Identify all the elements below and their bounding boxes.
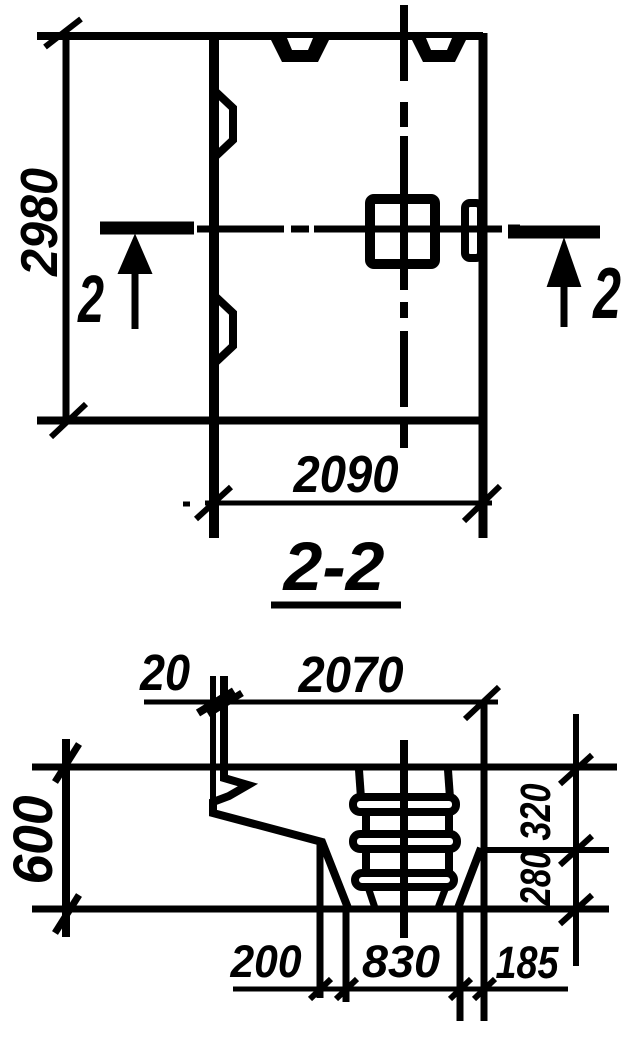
- horizontal axis center line (dash-dot): [181, 226, 520, 233]
- section axis center line: [400, 740, 408, 938]
- shear key wall between A-B right: [445, 813, 453, 834]
- svg-text:185: 185: [496, 937, 560, 988]
- opening square: [370, 199, 435, 264]
- thin wall right line with break zigzag: [213, 676, 348, 908]
- top edge notch 2: [411, 38, 467, 62]
- ledge line y=850 right side: [487, 847, 609, 853]
- section mark bar left: [100, 222, 194, 235]
- shear key wall between A-B left: [362, 813, 370, 834]
- shear key bottom wall left: [368, 887, 375, 908]
- panel bottom edge with left extension: [37, 417, 483, 425]
- extension line x=460: [457, 906, 464, 1021]
- svg-text:2: 2: [77, 262, 104, 337]
- section bottom surface line: [32, 906, 609, 913]
- tick at x460: [450, 979, 471, 999]
- svg-text:320: 320: [512, 783, 560, 840]
- dimension line 2090 (horizontal): [205, 501, 492, 506]
- ink speck before 2090 line: [183, 502, 190, 507]
- panel left edge with lower extension: [209, 32, 219, 538]
- svg-text:280: 280: [512, 850, 560, 906]
- panel right edge with lower extension: [479, 33, 488, 538]
- tick at bottom line: [55, 895, 79, 933]
- shear key rib band B: [353, 834, 457, 849]
- tick left: [196, 487, 231, 519]
- extension line x=346: [343, 906, 350, 1002]
- dimension line 600 (left vertical): [62, 739, 70, 937]
- dimension line 2980 (vertical): [63, 33, 70, 422]
- dimension line bottom (200/830/185): [233, 987, 568, 992]
- section arrow left: [119, 236, 151, 273]
- svg-text:2980: 2980: [11, 168, 69, 277]
- tick at wall (double slash): [198, 691, 234, 713]
- shear key bottom wall right: [438, 887, 446, 908]
- top edge notch 1: [270, 38, 330, 62]
- shear key rib band A: [353, 797, 456, 812]
- tick at y909: [560, 895, 592, 924]
- dimension line top (20 / 2070): [144, 700, 498, 705]
- tick at y767: [560, 755, 592, 784]
- vertical axis center line (dash-dot): [400, 5, 408, 448]
- left edge bump 1: [216, 92, 233, 156]
- right jamb vertical full: [481, 701, 488, 1021]
- extension line x=320: [317, 842, 324, 998]
- tick at right: [465, 687, 499, 719]
- shear key wall between B-C left: [362, 849, 370, 873]
- svg-text:2: 2: [592, 254, 621, 334]
- tick top: [45, 19, 81, 47]
- left edge bump 2: [216, 297, 233, 362]
- svg-text:2070: 2070: [298, 646, 404, 703]
- shear key left wall upper: [359, 770, 361, 798]
- tick at x320: [310, 979, 331, 999]
- tick right: [464, 486, 500, 521]
- right jamb slope: [458, 848, 481, 908]
- tick at y850: [560, 836, 592, 865]
- panel top edge with left extension: [37, 32, 483, 40]
- tick at x346: [336, 979, 357, 999]
- tick bottom: [51, 404, 86, 437]
- tick at x484: [474, 979, 495, 999]
- dimension line right (320/280): [573, 714, 579, 966]
- svg-text:600: 600: [1, 796, 64, 885]
- svg-text:200: 200: [230, 936, 302, 987]
- svg-text:830: 830: [362, 936, 440, 987]
- thin wall left line: [210, 676, 216, 813]
- shear key wall between B-C right: [445, 849, 453, 873]
- title underline: [271, 602, 401, 609]
- shear key right wall upper: [448, 770, 450, 798]
- svg-text:2090: 2090: [293, 446, 399, 504]
- tick at top line: [55, 744, 79, 782]
- section mark bar right: [508, 226, 600, 239]
- shear key rib band C: [355, 873, 454, 887]
- right edge small notch rect: [465, 203, 481, 258]
- section top surface line: [32, 764, 617, 771]
- svg-text:2-2: 2-2: [281, 528, 384, 605]
- section arrow right: [548, 240, 580, 286]
- svg-text:20: 20: [139, 644, 190, 701]
